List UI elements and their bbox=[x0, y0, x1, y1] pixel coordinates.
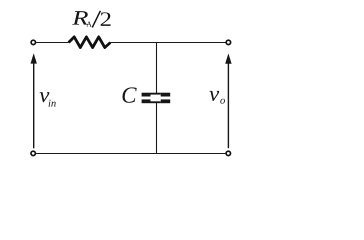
capacitor C bottom plate bbox=[142, 99, 171, 103]
wire top rail left segment (terminal to resistor) bbox=[36, 42, 68, 44]
terminal bottom-left bbox=[31, 151, 35, 155]
label vin : v bbox=[40, 92, 50, 102]
wire capacitor to bottom rail bbox=[156, 103, 158, 154]
wire bottom rail bbox=[36, 153, 225, 155]
vo arrow line bbox=[227, 63, 229, 149]
label R_A/2 : slash bbox=[92, 11, 100, 28]
capacitor C top plate bbox=[142, 93, 171, 97]
wire top rail right segment (resistor to right terminal) bbox=[110, 42, 225, 44]
vin arrow head bbox=[31, 53, 37, 63]
label R_A/2 : 2 bbox=[101, 12, 111, 26]
label vo : subscript o bbox=[220, 99, 225, 104]
terminal bottom-right bbox=[226, 151, 230, 155]
label vo : v bbox=[209, 91, 219, 101]
terminal top-right bbox=[226, 40, 230, 44]
resistor R_A/2 zigzag bbox=[69, 37, 111, 48]
label vin : subscript in bbox=[49, 100, 56, 107]
node junction wire down to capacitor bbox=[156, 43, 158, 94]
vo arrow head bbox=[225, 53, 231, 63]
label C bbox=[122, 87, 136, 102]
terminal top-left bbox=[31, 40, 35, 44]
label R_A/2 : subscript A bbox=[86, 22, 92, 27]
label R_A/2 : R bbox=[72, 11, 88, 24]
vin arrow line bbox=[33, 63, 35, 149]
